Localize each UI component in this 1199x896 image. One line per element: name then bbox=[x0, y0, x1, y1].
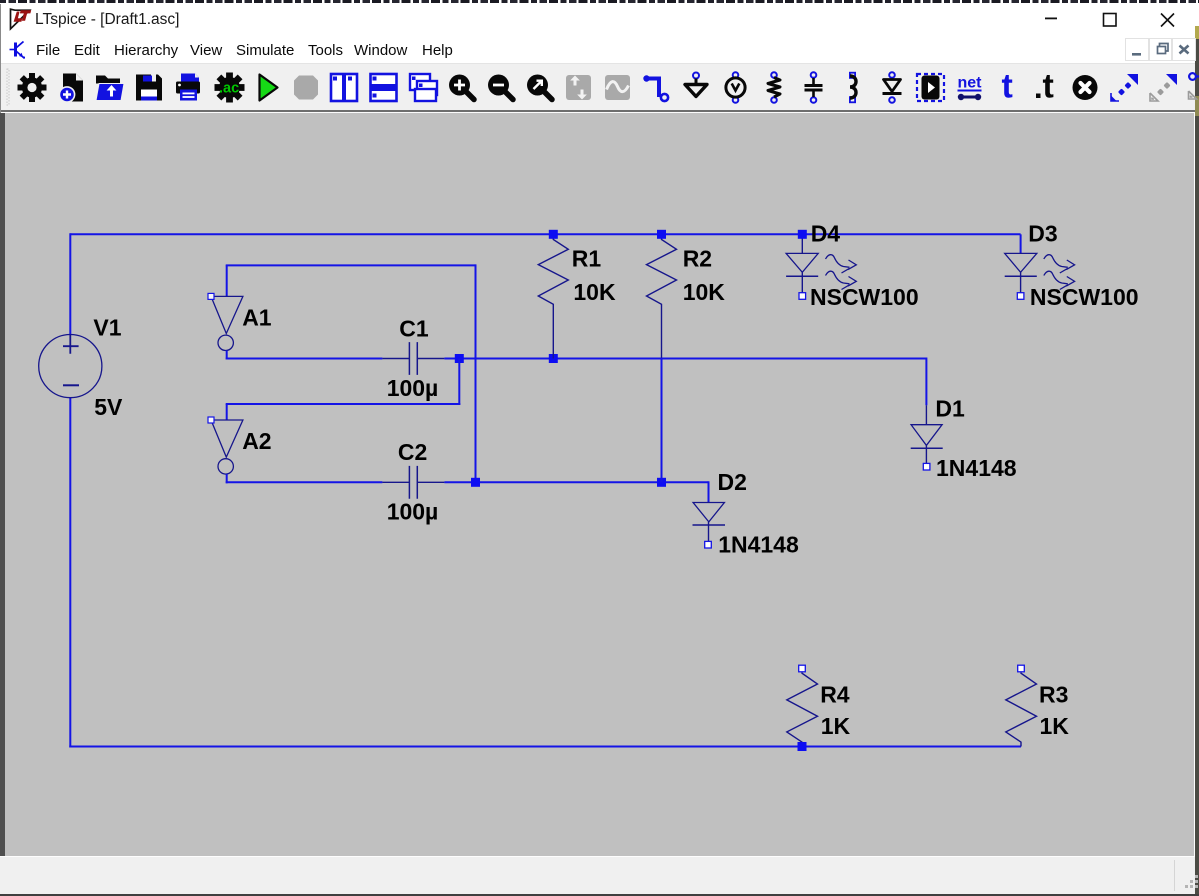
label D1 1N4148 bbox=[936, 455, 1017, 481]
icon: zoom out bbox=[488, 75, 513, 100]
wire left vertical lower bbox=[69, 398, 71, 748]
icon: drag tool (disabled) bbox=[1150, 74, 1177, 101]
port R3 top bbox=[1018, 665, 1025, 672]
wire bottom rail bbox=[69, 746, 1021, 748]
capacitor C2 bbox=[382, 466, 444, 499]
wire A2 output bbox=[226, 474, 228, 483]
svg-text:C1: C1 bbox=[399, 316, 429, 342]
port D2 cathode bbox=[705, 541, 712, 548]
port D1 cathode bbox=[923, 463, 930, 470]
icon: resistor tool bbox=[768, 72, 780, 103]
label 100u C2 bbox=[387, 499, 439, 525]
label D4 bbox=[811, 221, 841, 247]
label R2 bbox=[683, 245, 712, 271]
MDI child icon (blue transistor) bbox=[9, 39, 25, 61]
svg-text:R4: R4 bbox=[820, 682, 850, 708]
icon: tile horizontal bbox=[371, 74, 397, 101]
junction R4 bottom bbox=[798, 742, 807, 751]
svg-text:NSCW100: NSCW100 bbox=[1030, 284, 1139, 310]
icon: print bbox=[176, 74, 200, 101]
icon: cut tool bbox=[1073, 75, 1098, 100]
wire D1 drop bbox=[925, 358, 927, 406]
svg-text:100µ: 100µ bbox=[387, 499, 439, 525]
icon: text tool bbox=[1002, 68, 1013, 106]
icon: spice directive tool bbox=[1036, 68, 1054, 106]
label R3 1K bbox=[1040, 713, 1070, 739]
resistor R2 bbox=[647, 238, 677, 358]
diode D1 bbox=[911, 405, 943, 463]
label 100u C1 bbox=[387, 375, 439, 401]
wire A1 input vertical bbox=[226, 265, 228, 296]
icon: ground tool bbox=[685, 73, 707, 97]
capacitor C1 bbox=[382, 342, 444, 375]
svg-text:1N4148: 1N4148 bbox=[936, 455, 1017, 481]
resistor R4 bbox=[787, 673, 818, 747]
label V1 bbox=[93, 315, 121, 341]
svg-text:1K: 1K bbox=[1040, 713, 1070, 739]
label A2 bbox=[242, 428, 271, 454]
icon: move tool bbox=[1111, 74, 1138, 101]
port D3 cathode bbox=[1017, 293, 1024, 300]
port D4 cathode bbox=[799, 293, 806, 300]
icon: component tool bbox=[917, 74, 944, 101]
svg-text:D1: D1 bbox=[935, 396, 965, 422]
svg-text:100µ: 100µ bbox=[387, 375, 439, 401]
LTspice app logo bbox=[6, 6, 34, 34]
voltage source V1 bbox=[39, 335, 102, 398]
wire feedback vertical bbox=[475, 264, 477, 482]
svg-text:10K: 10K bbox=[573, 279, 616, 305]
icon: wire tool bbox=[643, 75, 668, 101]
junction R2 top bbox=[657, 230, 666, 239]
wire A1 input top horizontal bbox=[226, 264, 476, 266]
icon: settings gear bbox=[18, 73, 47, 102]
wire top rail bbox=[70, 233, 1020, 235]
wire row1 left bbox=[226, 358, 383, 360]
label 5V bbox=[94, 394, 123, 420]
inverter A1 bbox=[208, 293, 243, 350]
icon: zoom full extents bbox=[527, 75, 552, 100]
icon: open bbox=[96, 76, 124, 101]
icon: capacitor tool bbox=[805, 72, 823, 103]
wire A2 loop horizontal bbox=[226, 403, 461, 405]
junction row2 R2 bbox=[657, 478, 666, 487]
junction row1 C1 bbox=[455, 354, 464, 363]
label D3 bbox=[1028, 221, 1057, 247]
label C2 bbox=[398, 439, 427, 465]
svg-text:NSCW100: NSCW100 bbox=[810, 284, 919, 310]
junction D4 anode bbox=[798, 230, 807, 239]
icon: zoom in bbox=[449, 75, 474, 100]
svg-text:A2: A2 bbox=[242, 428, 271, 454]
label A1 bbox=[242, 305, 272, 331]
icon: halt (disabled) bbox=[294, 76, 318, 100]
wire A1 output bbox=[226, 351, 228, 360]
icon: partial rightmost bbox=[1189, 73, 1199, 99]
icon: inductor tool bbox=[850, 73, 856, 103]
svg-text:1N4148: 1N4148 bbox=[718, 532, 799, 558]
wire D2 drop bbox=[708, 481, 710, 502]
junction row1 R1 bbox=[549, 354, 558, 363]
svg-text:10K: 10K bbox=[683, 279, 726, 305]
icon: pan (disabled) bbox=[566, 75, 591, 100]
label R4 bbox=[820, 682, 850, 708]
junction R1 top bbox=[549, 230, 558, 239]
label C1 bbox=[399, 316, 429, 342]
label D3 NSCW100 bbox=[1030, 284, 1139, 310]
icon: autorange (disabled) bbox=[605, 75, 630, 100]
svg-text:5V: 5V bbox=[94, 394, 123, 420]
icon: .ac analysis gear bbox=[215, 73, 245, 103]
toolbar grip bbox=[7, 69, 9, 105]
svg-text:1K: 1K bbox=[821, 713, 851, 739]
LED D3 bbox=[1005, 234, 1075, 292]
wire row1 right bbox=[444, 358, 926, 360]
svg-text:A1: A1 bbox=[242, 305, 272, 331]
svg-text:D3: D3 bbox=[1028, 221, 1057, 247]
status bar separator and grip bbox=[0, 857, 1199, 894]
inverter A2 bbox=[208, 417, 243, 474]
wire left vertical upper bbox=[69, 233, 71, 334]
icon: label net tool bbox=[726, 72, 745, 103]
icon: run bbox=[260, 75, 278, 101]
label D1 bbox=[935, 396, 965, 422]
wire junction drop bbox=[458, 359, 460, 406]
wire R2 bottom bbox=[661, 358, 663, 482]
icon: tile vertical bbox=[331, 74, 357, 101]
svg-text:R2: R2 bbox=[683, 245, 712, 271]
svg-text:R3: R3 bbox=[1039, 682, 1068, 708]
icon: net name tool bbox=[958, 75, 983, 101]
label R2 10K bbox=[683, 279, 726, 305]
label D2 bbox=[718, 469, 747, 495]
port R4 top bbox=[799, 665, 806, 672]
LED D4 bbox=[786, 234, 856, 292]
label R1 10K bbox=[573, 279, 616, 305]
resistor R3 bbox=[1006, 673, 1037, 747]
MDI child window buttons bbox=[1125, 38, 1197, 61]
svg-text:D2: D2 bbox=[718, 469, 747, 495]
diode D2 bbox=[693, 503, 726, 542]
label R4 1K bbox=[821, 713, 851, 739]
wire A2 input vertical bbox=[226, 404, 228, 420]
icon: new schematic bbox=[59, 74, 83, 103]
window controls: minimize maximize close bbox=[1030, 4, 1190, 34]
label D4 NSCW100 bbox=[810, 284, 919, 310]
svg-text:R1: R1 bbox=[572, 245, 602, 271]
junction row2 feedback bbox=[471, 478, 480, 487]
svg-text:C2: C2 bbox=[398, 439, 427, 465]
icon: diode tool bbox=[883, 72, 902, 103]
wire row2 left bbox=[226, 481, 383, 483]
label R3 bbox=[1039, 682, 1068, 708]
resistor R1 bbox=[538, 238, 568, 359]
svg-text:D4: D4 bbox=[811, 221, 841, 247]
wire row2 right bbox=[444, 481, 708, 483]
icon: cascade windows bbox=[410, 74, 437, 101]
icon: save bbox=[136, 75, 162, 101]
label D2 1N4148 bbox=[718, 532, 799, 558]
label R1 bbox=[572, 245, 602, 271]
svg-text:V1: V1 bbox=[93, 315, 121, 341]
